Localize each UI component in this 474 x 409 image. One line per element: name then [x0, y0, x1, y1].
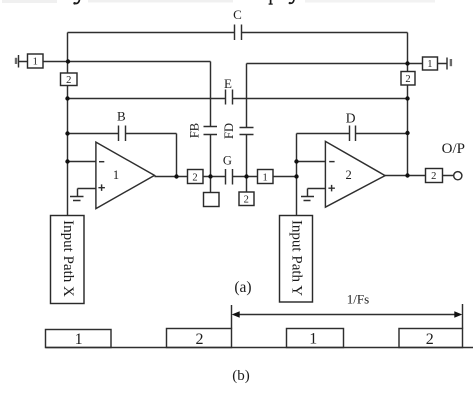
svg-text:FB: FB	[187, 123, 201, 138]
svg-text:2: 2	[345, 168, 351, 182]
svg-text:1: 1	[33, 57, 38, 68]
svg-text:2: 2	[244, 195, 249, 206]
svg-text:2: 2	[426, 331, 434, 348]
svg-text:1: 1	[427, 59, 432, 70]
svg-text:E: E	[224, 76, 232, 91]
svg-text:2: 2	[192, 172, 197, 183]
svg-text:2: 2	[431, 171, 436, 182]
svg-text:B: B	[117, 109, 126, 124]
svg-text:2: 2	[66, 75, 71, 86]
svg-text:1: 1	[113, 168, 119, 182]
svg-text:FD: FD	[222, 123, 236, 139]
svg-text:1/Fs: 1/Fs	[347, 291, 369, 306]
svg-text:Input Path X: Input Path X	[60, 220, 76, 297]
svg-text:C: C	[233, 7, 242, 22]
svg-text:2: 2	[196, 331, 204, 348]
svg-text:Input Path Y: Input Path Y	[289, 220, 305, 296]
svg-text:G: G	[223, 153, 232, 167]
svg-text:O/P: O/P	[442, 141, 465, 157]
svg-text:(b): (b)	[232, 368, 250, 384]
svg-text:1: 1	[309, 331, 317, 348]
svg-text:(a): (a)	[234, 279, 251, 296]
svg-text:D: D	[346, 111, 356, 126]
svg-text:1: 1	[262, 172, 267, 183]
svg-text:2: 2	[405, 74, 410, 85]
svg-text:1: 1	[75, 331, 83, 348]
